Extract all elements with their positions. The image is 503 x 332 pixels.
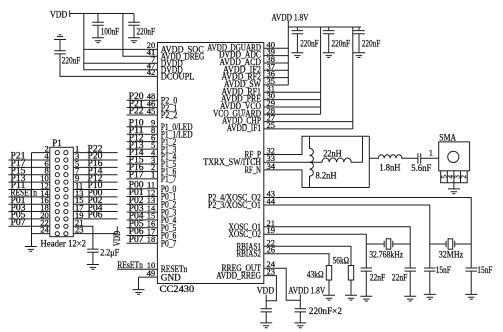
wire net P21 (header pin 4) (8, 159, 49, 161)
capacitor 220nF x2 (AVDD bottom) (295, 309, 307, 312)
svg-text:P06: P06 (88, 210, 104, 220)
ground above DCOUPL cap (inverted) (54, 35, 66, 40)
svg-text:REsETn: REsETn (117, 260, 143, 270)
wire to pin 41 AVDD_DREG (123, 14, 157, 57)
svg-text:220nF: 220nF (332, 38, 351, 48)
svg-text:P1_7: P1_7 (161, 174, 177, 184)
svg-text:AVDD 1.8V: AVDD 1.8V (288, 287, 325, 297)
svg-text:P07: P07 (129, 234, 145, 244)
capacitor 5.6nF (series) (418, 153, 421, 163)
wire net P07 (header pin 22) (8, 225, 49, 227)
wire C 100nF to ground (97, 26, 99, 38)
wire rail to C 220nF #1 (296, 27, 298, 31)
wire header pin 23 to VDD (73, 233, 117, 235)
wire AVDD pin row y=70 (264, 69, 289, 71)
ground under 15nF (right) (465, 294, 477, 299)
svg-text:XOSC_O2: XOSC_O2 (229, 229, 262, 239)
wire net P10 to pin 9 (127, 126, 158, 128)
wire net P22 (header pin 1) (73, 152, 117, 154)
svg-text:DCOUPL: DCOUPL (161, 72, 195, 82)
wire pin 26 RBIAS2 to R 43k (264, 254, 329, 266)
svg-text:100nF: 100nF (101, 26, 120, 36)
wire AVDD pin row y=100 (264, 99, 321, 101)
wire net P16 to pin 2 (127, 170, 158, 172)
wire R 56k to ground (350, 280, 352, 295)
ground at pin 49 (133, 290, 145, 295)
svg-text:VDD: VDD (50, 10, 67, 20)
resistor R1 56kOhm (348, 266, 353, 281)
wire rail to C 220nF #2 (328, 27, 330, 31)
P1 right pin numbers (75, 144, 84, 235)
svg-text:VDD: VDD (113, 231, 123, 247)
svg-text:P07: P07 (11, 217, 27, 227)
wire pin 24 RREG_OUT to AVDD net (264, 268, 301, 300)
connector J1 SMA body (439, 142, 470, 171)
capacitor 220nF (top-left) (128, 22, 140, 25)
wire VDD bus down to pin 47 (84, 14, 158, 70)
svg-text:2.2μF: 2.2μF (100, 247, 119, 257)
wire pin 23 AVDD_RREG to VDD net (264, 276, 277, 301)
ground under 220nF (top-left) (128, 38, 140, 43)
wire net P11 (header pin 12) (8, 188, 49, 190)
wire C #1 to ground (296, 34, 298, 53)
wire cap to ground (VDD bottom) (265, 312, 267, 323)
wire C 2.2uF to ground (92, 252, 94, 264)
wire C 220nF to ground (133, 26, 135, 38)
wire header pin 2 to ground rail (32, 152, 50, 154)
capacitor 22nF (32.768kHz left) (361, 268, 373, 271)
wire RESETn to pin 10 (117, 268, 157, 270)
connector P1 Header 12x2 body (50, 147, 74, 236)
wire net P21 to pin 46 (127, 107, 158, 109)
wire VDD rail (top-left) (70, 13, 134, 15)
wire pin 22 RBIAS1 to R 56k (264, 246, 351, 265)
U1 left pin numbers (147, 40, 156, 278)
svg-text:56kΩ: 56kΩ (333, 255, 350, 265)
ground under 56k (345, 295, 357, 300)
svg-text:P2_3/XOSC_O1: P2_3/XOSC_O1 (208, 200, 261, 210)
wire 15nF-2 to ground (470, 271, 472, 294)
wire net P22 to pin 45 (127, 114, 158, 116)
svg-text:RF_N: RF_N (245, 165, 262, 175)
U1 right pin numbers (267, 39, 276, 276)
wire AVDD pin row y=122 (264, 121, 353, 123)
svg-text:RBIAS2: RBIAS2 (236, 249, 261, 259)
inductor 8.2nH (vertical balun coil) (310, 136, 314, 187)
wire net P07 to pin 18 (127, 242, 158, 244)
svg-text:8.2nH: 8.2nH (316, 170, 337, 180)
svg-text:P1: P1 (52, 138, 62, 148)
svg-text:220nF: 220nF (62, 55, 81, 65)
svg-text:43kΩ: 43kΩ (307, 269, 324, 279)
wire AVDD pin row y=63 (264, 62, 289, 64)
wire GND down (138, 277, 140, 290)
svg-text:220nF: 220nF (362, 38, 381, 48)
svg-text:15nF: 15nF (477, 265, 492, 275)
wire net P14 (header pin 7) (73, 174, 117, 176)
wire net P12 to pin 6 (127, 141, 158, 143)
capacitor 220nF (AVDD rail #3) (353, 31, 365, 34)
U1 left pin names (161, 45, 205, 283)
ground under SMA (448, 189, 460, 194)
ground under AVDD cap (294, 323, 306, 328)
svg-text:P2_2: P2_2 (161, 110, 178, 120)
wire AVDD bus 3 vertical (352, 27, 354, 129)
wire pin 21 XOSC_O1 to 32.768kHz right (264, 227, 410, 268)
wire net P00 to pin 11 (127, 188, 158, 190)
ground under 43k (323, 295, 335, 300)
wire net P20 to pin 48 (127, 99, 158, 101)
svg-text:AVDD 1.8V: AVDD 1.8V (272, 13, 309, 23)
wire net P02 to pin 13 (127, 203, 158, 205)
wire AVDD stub to cap (299, 295, 301, 309)
wire AVDD pin row y=92 (264, 91, 321, 93)
capacitor 2.2uF (87, 249, 99, 252)
IC U1 CC2430 body (157, 43, 263, 284)
wire AVDD bus 1 vertical (287, 27, 289, 85)
wire net P06 (header pin 19) (73, 218, 117, 220)
wire net P01 to pin 12 (127, 196, 158, 198)
wire net P04 to pin 15 (127, 219, 158, 221)
wire SMA shield to ground (453, 183, 455, 189)
svg-text:220nF: 220nF (137, 26, 156, 36)
wire net P03 (header pin 18) (8, 211, 49, 213)
wire AVDD label stub (287, 21, 289, 27)
wire net P10 (header pin 11) (73, 188, 117, 190)
wire net P15 (header pin 8) (8, 174, 49, 176)
wire net P14 to pin 4 (127, 156, 158, 158)
wire net P13 to pin 5 (127, 148, 158, 150)
wire net P17 to pin 1 (127, 178, 158, 180)
svg-text:CC2430: CC2430 (160, 284, 195, 294)
wire net P01 (header pin 16) (8, 203, 49, 205)
svg-text:22nH: 22nH (323, 149, 342, 159)
wire AVDD 1.8V rail (288, 26, 361, 28)
wire AVDD bus 2 vertical (320, 27, 322, 114)
wire AVDD pin row y=56 (264, 55, 289, 57)
ground under AVDD cap #2 (323, 53, 335, 58)
wire net P05 (header pin 20) (8, 218, 49, 220)
wire RF_P up and over (balun top) (264, 136, 370, 154)
wire header pin 24 to ground rail (32, 233, 50, 235)
ground under 100nF (92, 38, 104, 43)
P1 left pin numbers (40, 144, 49, 235)
wire pin 43 P2_4/XOSC_O2 to 32MHz right (264, 198, 471, 269)
power VDD terminal (header, rotated) (113, 226, 123, 246)
wire pin 44 P2_3/XOSC_O1 to 32MHz left (264, 205, 430, 268)
ground under 22nF (right) (404, 296, 416, 301)
svg-text:5.6nF: 5.6nF (411, 163, 431, 173)
capacitor 15nF (32MHz left) (424, 268, 436, 271)
ground under 2.2uF (87, 265, 99, 270)
wire AVDD pin row y=129 (264, 128, 353, 130)
capacitor 220nF (AVDD rail #1) (292, 31, 304, 34)
svg-text:GND: GND (161, 272, 182, 282)
svg-text:22nF: 22nF (392, 273, 408, 283)
wire C #2 to ground (328, 34, 330, 53)
VDD terminal tick (69, 11, 71, 18)
capacitor 100nF (top-left) (92, 22, 104, 25)
capacitor 220nF (DCOUPL) (54, 51, 66, 54)
wire RF_N down and under (balun bottom) (264, 170, 370, 188)
svg-text:32.768kHz: 32.768kHz (369, 249, 403, 259)
resistor R2 43kOhm (326, 266, 331, 281)
wire net P20 (header pin 3) (73, 159, 117, 161)
wire net P04 (header pin 17) (73, 211, 117, 213)
svg-text:P22: P22 (129, 106, 144, 116)
wire AVDD pin row y=48 (264, 47, 289, 49)
svg-text:220nF×2: 220nF×2 (309, 306, 342, 316)
svg-text:SMA: SMA (439, 133, 456, 143)
wire net P16 (header pin 5) (73, 166, 117, 168)
svg-text:32MHz: 32MHz (439, 249, 463, 259)
wire net P03 to pin 14 (127, 211, 158, 213)
svg-text:AVDD_IF1: AVDD_IF1 (227, 123, 261, 133)
wire AVDD pin row y=107 (264, 106, 321, 108)
wire net P17 (header pin 6) (8, 166, 49, 168)
wire AVDD pin row y=78 (264, 77, 289, 79)
wire rail to C 220nF #3 (358, 27, 360, 31)
svg-text:P17: P17 (129, 170, 145, 180)
svg-text:1.8nH: 1.8nH (379, 163, 400, 173)
svg-text:1: 1 (429, 148, 433, 158)
wire VDD to C 100nF (97, 14, 99, 23)
svg-text:P0_7: P0_7 (161, 239, 177, 249)
wire 22nH end up to balun top (362, 136, 364, 162)
wire VDD stub to cap (265, 295, 267, 309)
inductor 22nH (horizontal balun coil) (310, 158, 363, 162)
svg-text:22nF: 22nF (370, 273, 386, 283)
ground at header (25, 247, 37, 252)
capacitor 220nF (VDD bottom) (260, 309, 272, 312)
wire C to pin 42 DCOUPL (60, 54, 157, 77)
wire 22nF-1 to ground (365, 271, 367, 296)
inductor 1.8nH (369, 155, 418, 159)
ground under VDD cap (260, 323, 272, 328)
capacitor 220nF (AVDD rail #2) (323, 31, 335, 34)
wire net P13 (header pin 10) (8, 181, 49, 183)
wire TXRX_SWITCH to balun center tap (264, 161, 310, 163)
wire net P00 (header pin 13) (73, 196, 117, 198)
wire net P12 (header pin 9) (73, 181, 117, 183)
wire 22nF-2 to ground (409, 271, 411, 296)
crystal Y1 32MHz (430, 239, 471, 249)
wire net P06 to pin 17 (127, 235, 158, 237)
svg-text:42: 42 (147, 67, 156, 77)
wire C #3 to ground (358, 34, 360, 53)
wire net P15 to pin 3 (127, 163, 158, 165)
wire 15nF-1 to ground (429, 271, 431, 294)
wire to pin 7 DVDD (84, 62, 158, 64)
ground under AVDD cap #1 (291, 53, 303, 58)
wire cap to SMA pin 1 (421, 157, 439, 159)
SMA ground pins 5 4 3 2 (440, 171, 468, 183)
capacitor 15nF (32MHz right) (465, 268, 477, 271)
wire net P05 to pin 16 (127, 227, 158, 229)
ground under AVDD cap #3 (353, 53, 365, 58)
wire ground to C 220nF (DCOUPL) (59, 40, 61, 51)
svg-text:VDD: VDD (257, 286, 274, 296)
wire header pin 21 to C 2.2uF (73, 226, 93, 249)
svg-text:Header 12×2: Header 12×2 (41, 238, 87, 248)
svg-text:AVDD_RREG: AVDD_RREG (216, 271, 261, 281)
wire balun right vertical (368, 136, 370, 187)
svg-text:2: 2 (460, 175, 468, 179)
wire net P11 to pin 8 (127, 133, 158, 135)
wire VDD to C 220nF (top) (133, 14, 135, 23)
wire pin 19 XOSC_O2 to 32.768kHz left (264, 234, 367, 268)
capacitor 22nF (32.768kHz right) (404, 268, 416, 271)
wire cap to ground (AVDD bottom) (299, 312, 301, 323)
U1 right pin names (203, 42, 261, 280)
wire R 43k to ground (328, 280, 330, 295)
wire AVDD pin row y=85 (264, 84, 289, 86)
ground under 15nF (left) (424, 294, 436, 299)
P1 header contacts (55, 151, 68, 236)
wire AVDD pin row y=114 (264, 113, 321, 115)
svg-text:15nF: 15nF (436, 265, 451, 275)
wire net P02 (header pin 15) (73, 203, 117, 205)
wire net RESETn (header pin 14) (8, 196, 49, 198)
crystal Y2 32.768kHz (366, 239, 410, 249)
svg-text:220nF: 220nF (300, 38, 319, 48)
wire to pin 20 AVDD_SOC (84, 48, 158, 50)
wire header ground rail vertical (31, 153, 33, 247)
ground under 22nF (left) (360, 296, 372, 301)
wire pin 49 GND (139, 276, 158, 278)
